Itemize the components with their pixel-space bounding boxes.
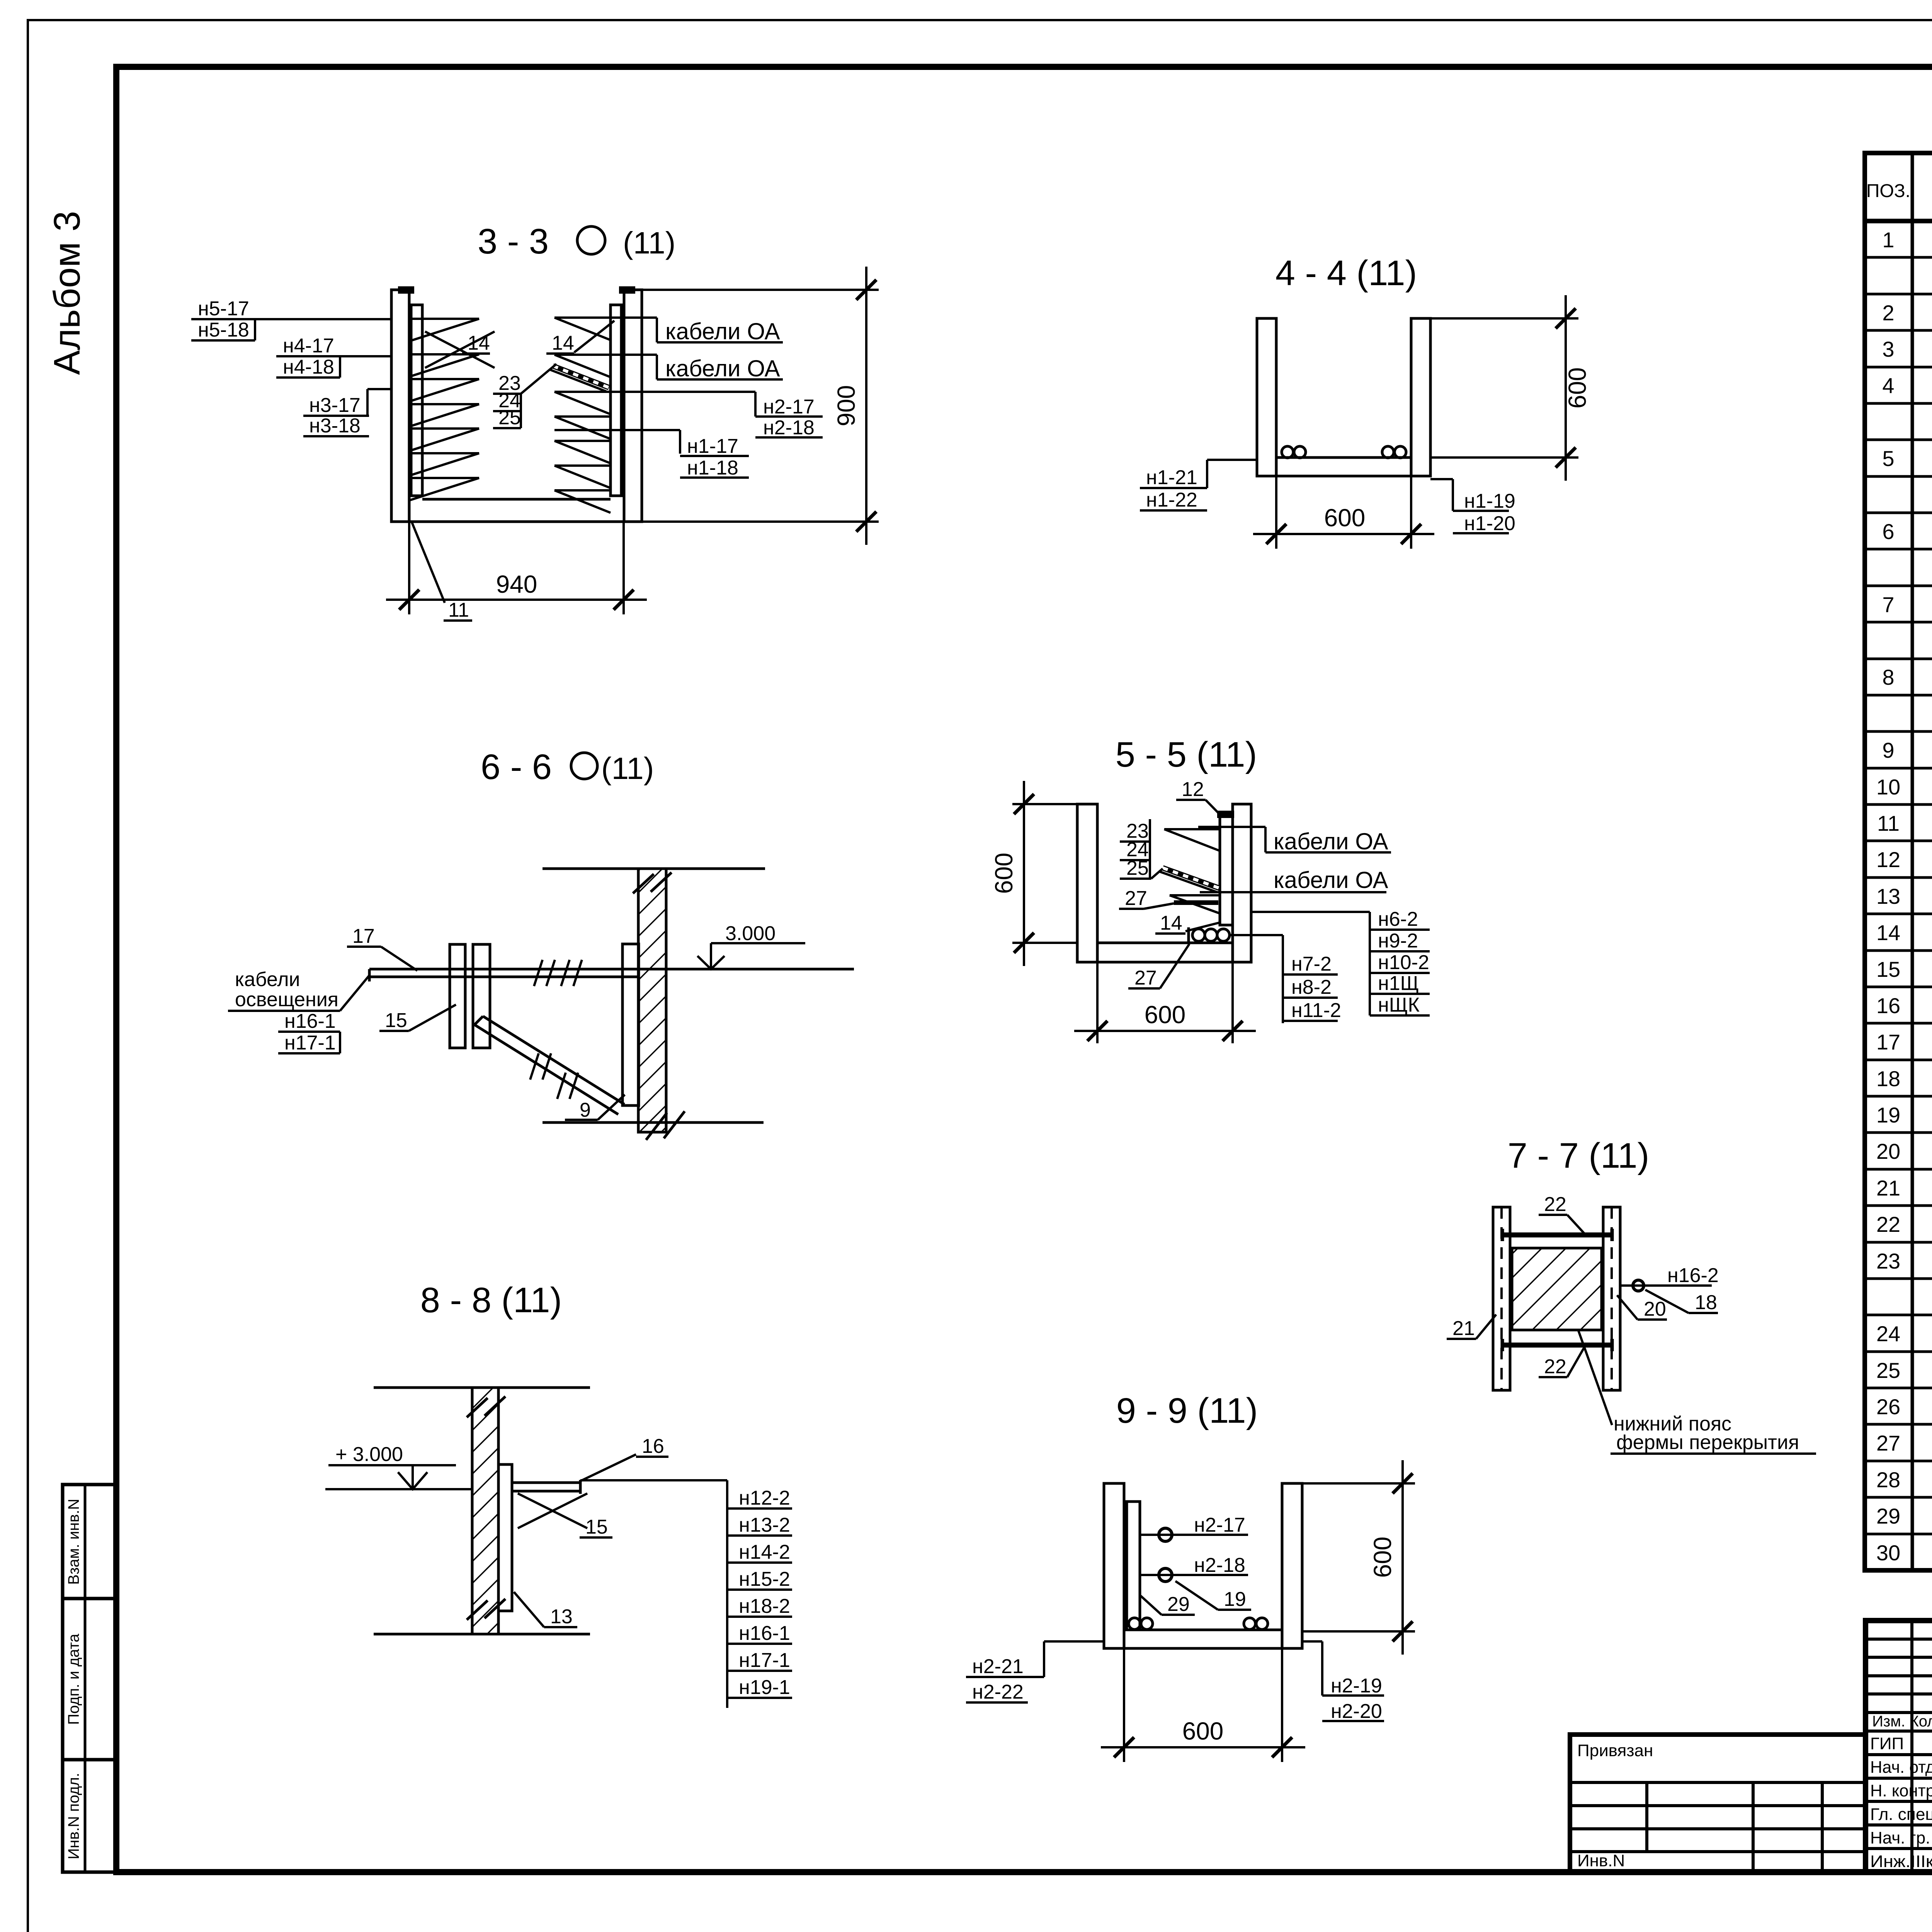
parts table row 25 line (1865, 1095, 1932, 1098)
svg-text:н4-18: н4-18 (283, 356, 334, 378)
parts table row 23 line (1865, 1022, 1932, 1025)
svg-text:7 - 7 (11): 7 - 7 (11) (1508, 1136, 1649, 1175)
6-6 wall corbel plate (622, 944, 639, 1105)
svg-text:н2-19: н2-19 (1331, 1675, 1382, 1697)
svg-text:27: 27 (1125, 887, 1147, 910)
left stamp strip outline (63, 1485, 117, 1872)
left stamp strip row line 2 (63, 1758, 117, 1762)
svg-text:14: 14 (1876, 920, 1900, 945)
3-3 right cable stand main bar (624, 290, 642, 522)
7-7 bottom stud rod (1502, 1343, 1612, 1348)
6-6 wall hatched strip (638, 869, 666, 1132)
parts table row 22 line (1865, 986, 1932, 988)
svg-text:Инв.N: Инв.N (1577, 1851, 1625, 1870)
5-5 cable tray small thick (1174, 900, 1218, 905)
6-6 break marks on arm (534, 960, 543, 986)
svg-text:н13-2: н13-2 (739, 1514, 790, 1536)
svg-text:600: 600 (1182, 1717, 1224, 1745)
svg-text:11: 11 (1877, 811, 1900, 835)
parts table row 34 line (1865, 1423, 1932, 1426)
5-5 dimension 600 left (1012, 803, 1077, 805)
title block outer border (1866, 1621, 1932, 1872)
svg-text:Нач. гр.: Нач. гр. (1870, 1828, 1930, 1847)
5-5 stand black cap (1217, 811, 1234, 818)
parts table row 10 line (1865, 548, 1932, 551)
svg-text:Подп. и дата: Подп. и дата (65, 1633, 82, 1725)
svg-text:н2-17: н2-17 (1194, 1514, 1245, 1536)
svg-text:кабели: кабели (235, 968, 300, 991)
4-4 label н1-19 / н1-20 with step leader (1430, 478, 1453, 480)
parts table row 3 line (1865, 293, 1932, 296)
svg-text:4 - 4 (11): 4 - 4 (11) (1276, 253, 1417, 293)
4-4 channel right wall (1411, 318, 1430, 476)
svg-text:Инж.IIIкат.: Инж.IIIкат. (1870, 1852, 1932, 1871)
3-3 left shelf bracket 2 (409, 353, 479, 355)
svg-text:24: 24 (1876, 1321, 1900, 1346)
svg-text:н17-1: н17-1 (284, 1032, 336, 1054)
privyazan block outline (1570, 1735, 1866, 1872)
parts table row 7 line (1865, 439, 1932, 441)
title block signature grid horizontals (1866, 1638, 1932, 1641)
5-5 right label column н6-2 н9-2 н10-2 н1Щ нЩК (1251, 911, 1370, 913)
7-7 hanger circle n16-2 (1633, 1280, 1644, 1291)
svg-text:н10-2: н10-2 (1378, 951, 1429, 974)
svg-text:16: 16 (1876, 993, 1900, 1018)
3-3 fire partition hatched band (553, 366, 609, 388)
svg-text:(11): (11) (601, 751, 654, 786)
svg-text:н2-22: н2-22 (972, 1681, 1024, 1703)
parts table row 5 line (1865, 366, 1932, 369)
3-3 leader from 23/24/25 to partition (521, 364, 556, 394)
svg-text:н16-1: н16-1 (739, 1622, 790, 1645)
svg-text:1: 1 (1882, 228, 1894, 252)
svg-text:22: 22 (1544, 1355, 1566, 1378)
6-6 wall break mark bottom (646, 1113, 667, 1140)
parts table row 17 line (1865, 803, 1932, 806)
svg-text:ПОЗ.: ПОЗ. (1866, 181, 1910, 201)
3-3 label н1-17 / н1-18 with step leader (554, 429, 680, 431)
svg-text:н2-17: н2-17 (763, 396, 815, 418)
svg-text:3.000: 3.000 (725, 922, 776, 945)
3-3 left shelf bracket 5 (409, 427, 479, 430)
7-7 right truss post (1603, 1207, 1620, 1390)
svg-text:12: 12 (1182, 778, 1204, 801)
left stamp strip row line 1 (63, 1597, 117, 1600)
parts table row 2 line (1865, 256, 1932, 259)
svg-text:5 - 5 (11): 5 - 5 (11) (1116, 735, 1257, 774)
svg-text:29: 29 (1876, 1504, 1900, 1528)
svg-text:15: 15 (385, 1009, 407, 1032)
svg-text:кабели ОА: кабели ОА (665, 318, 780, 344)
8-8 wall break mark bottom (467, 1600, 488, 1620)
svg-text:7: 7 (1882, 592, 1894, 617)
svg-text:6 - 6: 6 - 6 (481, 747, 552, 787)
svg-text:Альбом 3: Альбом 3 (46, 211, 88, 375)
svg-text:25: 25 (1126, 857, 1149, 879)
parts table outer border (1865, 153, 1932, 1570)
svg-text:н1-21: н1-21 (1146, 466, 1197, 489)
svg-text:н3-18: н3-18 (309, 415, 361, 437)
svg-text:18: 18 (1876, 1066, 1900, 1091)
svg-text:9: 9 (580, 1099, 591, 1121)
svg-text:н1-19: н1-19 (1464, 490, 1515, 512)
section 3-3 title circle (577, 226, 605, 254)
svg-text:21: 21 (1452, 1317, 1475, 1340)
svg-text:9 - 9 (11): 9 - 9 (11) (1116, 1391, 1258, 1430)
svg-text:27: 27 (1876, 1431, 1900, 1455)
svg-text:ГИП: ГИП (1870, 1734, 1904, 1753)
3-3 left shelf bracket 6 (409, 452, 479, 454)
parts table row 31 line (1865, 1314, 1932, 1316)
svg-text:н1-22: н1-22 (1146, 489, 1197, 511)
9-9 dimension 600 bottom (1123, 1648, 1125, 1762)
parts table row 8 line (1865, 475, 1932, 478)
svg-text:29: 29 (1167, 1593, 1190, 1616)
svg-text:н1-18: н1-18 (687, 457, 738, 479)
svg-text:3 - 3: 3 - 3 (478, 222, 549, 261)
svg-text:13: 13 (1876, 884, 1900, 908)
svg-text:18: 18 (1695, 1291, 1717, 1314)
svg-text:Кол.уч.: Кол.уч. (1910, 1713, 1932, 1730)
3-3 left stand black cap (398, 286, 414, 294)
4-4 cable circles pair right (1382, 446, 1394, 458)
4-4 channel bottom slab (1276, 456, 1411, 459)
parts table row 18 line (1865, 840, 1932, 842)
svg-text:Привязан: Привязан (1577, 1741, 1653, 1760)
svg-text:н14-2: н14-2 (739, 1541, 790, 1563)
svg-text:кабели ОА: кабели ОА (1274, 828, 1388, 854)
parts table row 20 line (1865, 913, 1932, 915)
parts table row 27 line (1865, 1168, 1932, 1171)
svg-text:17: 17 (352, 925, 375, 947)
parts table row 24 line (1865, 1059, 1932, 1061)
svg-text:Взам. инв.N: Взам. инв.N (65, 1499, 82, 1585)
title block signature grid verticals (1910, 1621, 1913, 1872)
parts table row 29 line (1865, 1241, 1932, 1244)
svg-text:27: 27 (1134, 967, 1157, 989)
svg-text:н12-2: н12-2 (739, 1487, 790, 1509)
svg-text:Гл. спец.: Гл. спец. (1870, 1805, 1932, 1824)
5-5 channel left wall (1077, 804, 1097, 962)
svg-text:3: 3 (1882, 337, 1894, 361)
7-7 note нижний пояс фермы перекрытия (1578, 1331, 1612, 1425)
parts table header bottom line (1865, 219, 1932, 223)
parts table row 13 line (1865, 658, 1932, 660)
svg-text:Нач. отд.: Нач. отд. (1870, 1758, 1932, 1777)
5-5 cable stand on right wall (1220, 815, 1233, 925)
8-8 floor line below wall (374, 1633, 590, 1636)
8-8 wall hatched strip (472, 1388, 498, 1634)
svg-text:н1-17: н1-17 (687, 435, 738, 457)
svg-text:н5-17: н5-17 (198, 298, 249, 320)
svg-text:н2-21: н2-21 (972, 1655, 1024, 1678)
svg-text:600: 600 (1563, 367, 1591, 409)
5-5 left label column н7-2 н8-2 н11-2 (1230, 934, 1283, 936)
3-3 left cable stand main bar (391, 290, 409, 522)
svg-text:940: 940 (496, 570, 537, 598)
svg-text:16: 16 (642, 1435, 664, 1458)
5-5 channel bottom slab (1097, 942, 1233, 944)
parts table row 30 line (1865, 1277, 1932, 1280)
3-3 right cable stand secondary bar (611, 305, 621, 496)
6-6 floor line below wall (543, 1121, 764, 1124)
3-3 left shelf bracket 3 (409, 378, 479, 380)
3-3 left shelf bracket 4 (409, 403, 479, 405)
svg-text:кабели ОА: кабели ОА (1274, 867, 1388, 893)
svg-text:нЩК: нЩК (1378, 994, 1420, 1016)
svg-text:9: 9 (1882, 738, 1894, 762)
6-6 wall break mark top (633, 874, 654, 893)
svg-text:8: 8 (1882, 665, 1894, 689)
parts table row 36 line (1865, 1496, 1932, 1499)
svg-text:8 - 8 (11): 8 - 8 (11) (420, 1281, 562, 1320)
svg-text:22: 22 (1544, 1193, 1566, 1216)
parts table row 33 line (1865, 1387, 1932, 1389)
svg-text:12: 12 (1876, 847, 1900, 872)
svg-text:н5-18: н5-18 (198, 319, 249, 341)
5-5 leader from 25 to partition (1151, 869, 1163, 879)
parts table row 26 line (1865, 1131, 1932, 1134)
svg-text:н11-2: н11-2 (1291, 999, 1341, 1022)
svg-text:н15-2: н15-2 (739, 1568, 790, 1590)
svg-text:11: 11 (448, 599, 469, 621)
svg-text:600: 600 (990, 853, 1018, 894)
3-3 right shelf bracket 1 (554, 316, 611, 319)
9-9 channel bottom slab (1124, 1629, 1282, 1631)
svg-text:13: 13 (550, 1605, 573, 1628)
svg-text:22: 22 (1876, 1212, 1900, 1236)
3-3 label 11 with leader (412, 522, 445, 603)
3-3 right stand black cap (619, 286, 635, 294)
3-3 right shelf bracket 3 (554, 391, 611, 393)
svg-text:4: 4 (1882, 373, 1894, 398)
6-6 horizontal cantilever arm (369, 968, 854, 971)
6-6 wall-mounted vertical plate (450, 944, 465, 1048)
9-9 cable circles pair left (1129, 1618, 1140, 1629)
8-8 wall plate (498, 1464, 512, 1611)
svg-text:н1-20: н1-20 (1464, 512, 1515, 535)
svg-text:(11): (11) (623, 226, 675, 260)
parts table row 37 line (1865, 1533, 1932, 1536)
svg-text:2: 2 (1882, 301, 1894, 325)
svg-text:н1Щ: н1Щ (1378, 972, 1419, 995)
svg-text:н2-20: н2-20 (1331, 1700, 1382, 1723)
svg-text:15: 15 (585, 1516, 608, 1538)
4-4 dimension 600 right (1430, 317, 1578, 320)
5-5 fire partition hatched band (1163, 868, 1220, 888)
svg-text:14: 14 (1160, 912, 1182, 934)
svg-text:26: 26 (1876, 1395, 1900, 1419)
9-9 channel left wall (1104, 1483, 1124, 1648)
svg-text:19: 19 (1224, 1588, 1246, 1611)
parts table row 14 line (1865, 694, 1932, 697)
svg-text:фермы перекрытия: фермы перекрытия (1616, 1431, 1799, 1454)
9-9 dimension 600 right (1302, 1482, 1415, 1485)
svg-text:Н. контр.: Н. контр. (1870, 1781, 1932, 1800)
svg-text:23: 23 (1876, 1249, 1900, 1273)
svg-text:21: 21 (1876, 1176, 1900, 1200)
6-6 second plate (473, 944, 490, 1048)
svg-text:н16-1: н16-1 (284, 1010, 336, 1032)
8-8 cross mark X under arm (518, 1493, 587, 1528)
3-3 left shelf bracket 7 (409, 477, 479, 479)
parts table row 11 line (1865, 585, 1932, 587)
3-3 label н2-17 / н2-18 with step leader (554, 391, 755, 393)
8-8 wall break mark top (467, 1398, 488, 1417)
4-4 channel left wall (1257, 318, 1276, 476)
svg-text:кабели ОА: кабели ОА (665, 355, 780, 381)
svg-text:20: 20 (1876, 1139, 1900, 1163)
svg-text:Инв.N подл.: Инв.N подл. (65, 1773, 82, 1859)
8-8 ceiling line above wall (374, 1386, 590, 1389)
3-3 right shelf bracket 5 (554, 440, 611, 442)
svg-text:30: 30 (1876, 1541, 1900, 1565)
svg-text:14: 14 (552, 332, 574, 354)
svg-text:н19-1: н19-1 (739, 1676, 790, 1699)
7-7 left truss post (1493, 1207, 1510, 1390)
6-6 break marks on brace (530, 1053, 539, 1080)
3-3 cross mark X on left top bracket (425, 332, 495, 368)
svg-text:6: 6 (1882, 519, 1894, 544)
parts table row 6 line (1865, 402, 1932, 405)
8-8 cantilever arm (512, 1481, 580, 1484)
5-5 cable circles on bottom (1192, 929, 1205, 941)
9-9 channel right wall (1282, 1483, 1302, 1648)
5-5 shelf bracket upper (1164, 828, 1220, 830)
3-3 channel bottom slab (422, 498, 611, 501)
svg-text:н7-2: н7-2 (1291, 953, 1332, 975)
5-5 shelf bracket lower (1170, 894, 1220, 896)
parts table row 19 line (1865, 876, 1932, 879)
svg-text:14: 14 (468, 332, 490, 354)
svg-text:н9-2: н9-2 (1378, 930, 1418, 952)
svg-text:600: 600 (1369, 1537, 1396, 1578)
svg-text:5: 5 (1882, 446, 1894, 471)
8-8 leader to label column (580, 1479, 727, 1481)
svg-text:600: 600 (1324, 504, 1366, 532)
3-3 dimension 940 bottom (408, 522, 410, 614)
parts table row 21 line (1865, 949, 1932, 952)
svg-text:н8-2: н8-2 (1291, 976, 1332, 998)
3-3 right shelf bracket 7 (554, 489, 611, 492)
svg-text:10: 10 (1876, 775, 1900, 799)
parts table row 15 line (1865, 730, 1932, 733)
svg-text:освещения: освещения (235, 988, 338, 1011)
svg-text:19: 19 (1876, 1103, 1900, 1127)
parts table row 9 line (1865, 512, 1932, 514)
7-7 top stud rod (1502, 1233, 1612, 1238)
svg-text:900: 900 (832, 385, 860, 427)
3-3 left shelf bracket 1 (409, 318, 479, 320)
3-3 right shelf bracket 4 (554, 415, 611, 418)
5-5 label кабели ОА upper with step leader (1198, 826, 1265, 828)
svg-text:25: 25 (498, 406, 521, 429)
3-3 left stand secondary bar (411, 305, 422, 496)
left stamp strip divider column (84, 1485, 87, 1872)
4-4 dimension 600 bottom (1275, 476, 1277, 549)
privyazan block horizontal lines (1570, 1781, 1866, 1784)
9-9 label н2-19 / н2-20 with step leader (1302, 1640, 1322, 1643)
9-9 hanger circle 2 with line (1140, 1574, 1248, 1576)
6-6 diagonal brace to wall (483, 1016, 624, 1104)
3-3 label кабели ОА upper with step leader (554, 316, 657, 319)
section 6-6 title circle (571, 753, 597, 779)
svg-text:н16-2: н16-2 (1667, 1264, 1719, 1287)
parts table row 32 line (1865, 1350, 1932, 1353)
3-3 label кабели ОА lower with step leader (554, 354, 657, 356)
privyazan block vertical lines (1645, 1782, 1648, 1852)
6-6 ceiling line above wall (543, 867, 765, 870)
svg-text:н6-2: н6-2 (1378, 908, 1418, 930)
svg-text:н2-18: н2-18 (763, 417, 815, 439)
svg-text:17: 17 (1876, 1030, 1900, 1054)
3-3 right shelf bracket 6 (554, 464, 611, 467)
7-7 hatched fire partition square (1512, 1248, 1602, 1330)
svg-text:+ 3.000: + 3.000 (335, 1443, 403, 1466)
svg-text:25: 25 (1876, 1358, 1900, 1383)
parts table row 12 line (1865, 621, 1932, 624)
9-9 cable circles pair right (1244, 1618, 1255, 1629)
svg-text:600: 600 (1145, 1001, 1186, 1029)
9-9 hanger circle 1 with line (1140, 1534, 1248, 1536)
9-9 cable stand (1127, 1502, 1140, 1630)
4-4 cable circles pair left (1282, 446, 1293, 458)
3-3 dimension 900 right (637, 289, 879, 291)
svg-text:н18-2: н18-2 (739, 1595, 790, 1617)
parts table row 35 line (1865, 1460, 1932, 1463)
svg-text:20: 20 (1644, 1298, 1666, 1320)
parts table column lines (1911, 153, 1914, 1570)
svg-text:28: 28 (1876, 1468, 1900, 1492)
svg-text:н3-17: н3-17 (309, 394, 361, 417)
svg-text:н2-18: н2-18 (1194, 1554, 1245, 1577)
svg-text:н17-1: н17-1 (739, 1649, 790, 1672)
5-5 tray end tick at circles (1187, 927, 1190, 943)
5-5 dimension 600 bottom (1096, 962, 1099, 1043)
3-3 right shelf bracket 2 (554, 354, 611, 356)
parts table row 4 line (1865, 329, 1932, 332)
8-8 label column н12-2 .. н19-1 (726, 1480, 728, 1708)
svg-text:Изм.: Изм. (1872, 1713, 1905, 1730)
parts table row 16 line (1865, 767, 1932, 770)
5-5 channel right wall (1233, 804, 1251, 962)
svg-text:15: 15 (1876, 957, 1900, 981)
5-5 label кабели ОА lower on leader line (1200, 891, 1386, 893)
parts table row 28 line (1865, 1204, 1932, 1207)
svg-text:н4-17: н4-17 (283, 335, 334, 357)
